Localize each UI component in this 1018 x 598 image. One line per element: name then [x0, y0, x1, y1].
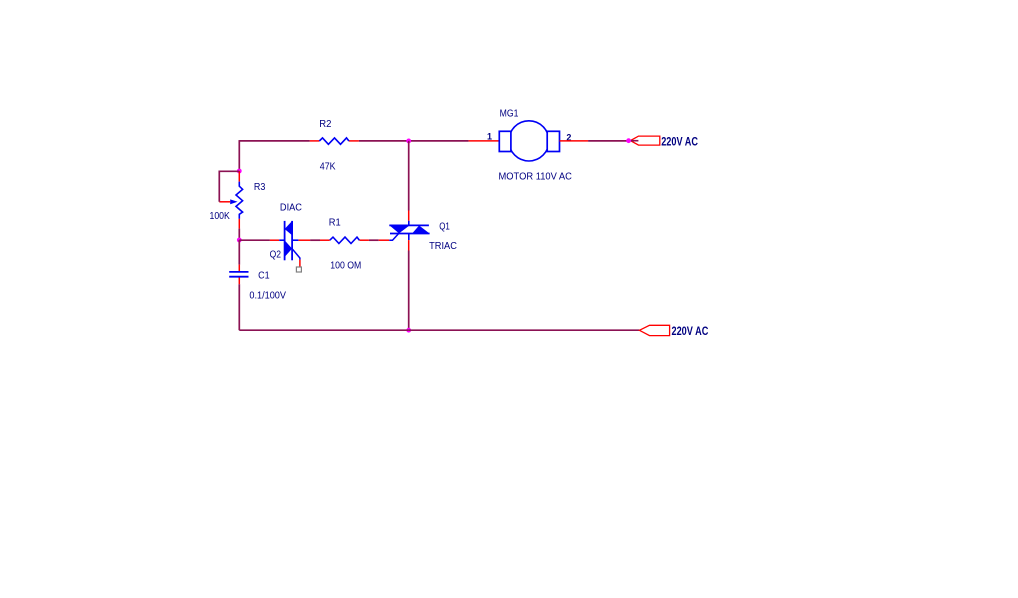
diac Q2 gate lead	[292, 249, 300, 260]
node junction R3 bottom	[237, 238, 242, 243]
wire C1 to bottom rail	[238, 284, 240, 330]
wire bottom rail left segment	[239, 329, 408, 331]
triac Q1 MT2 pin lead	[408, 211, 410, 221]
wire right column lower	[408, 251, 410, 331]
wire bottom rail right segment	[409, 329, 640, 331]
diac Q2 pin leads	[270, 239, 279, 241]
triac Q1 symbol	[408, 221, 410, 226]
wire right column upper	[408, 141, 410, 211]
svg-text:100K: 100K	[210, 211, 231, 222]
node junction R3 top	[237, 169, 242, 174]
svg-text:R3: R3	[254, 182, 266, 193]
triac Q1 gate	[389, 233, 399, 240]
diac Q2 symbol	[279, 239, 284, 241]
R3 wiper red lead	[219, 201, 230, 203]
node junction at top port	[626, 138, 631, 143]
triac Q1 MT1 pin lead	[408, 240, 410, 250]
wire top rail middle segment	[359, 140, 409, 142]
svg-text:TRIAC: TRIAC	[429, 241, 457, 252]
resistor R2 pin leads	[310, 140, 320, 142]
port 220V AC bottom terminal	[639, 325, 669, 335]
wire R3 to lower node	[238, 229, 240, 240]
resistor R2	[319, 138, 349, 144]
resistor R1 pin leads	[320, 239, 330, 241]
svg-text:R2: R2	[319, 119, 332, 130]
wire R3 wiper loop	[219, 171, 239, 202]
port 220V AC top terminal	[631, 136, 660, 145]
svg-text:Q1: Q1	[439, 222, 450, 233]
R3 wiper arrow	[230, 199, 237, 204]
wire top rail left segment	[239, 140, 309, 142]
svg-text:MG1: MG1	[500, 109, 519, 120]
triac Q1 gate pin lead	[379, 239, 390, 241]
svg-text:R1: R1	[329, 218, 341, 229]
potentiometer R3 pin leads	[238, 171, 240, 182]
svg-text:DIAC: DIAC	[280, 203, 302, 214]
motor MG1 pin 2 lead	[560, 140, 589, 142]
svg-text:220V AC: 220V AC	[672, 324, 709, 338]
wire node to C1	[238, 240, 240, 265]
port pin stub inside	[629, 140, 639, 142]
unconnected pin marker	[296, 267, 301, 272]
svg-text:220V AC: 220V AC	[661, 134, 698, 148]
svg-text:47K: 47K	[320, 162, 336, 173]
svg-text:0.1/100V: 0.1/100V	[249, 291, 286, 302]
node junction top of triac branch	[406, 139, 411, 144]
svg-text:C1: C1	[258, 271, 270, 282]
wire left column upper	[238, 140, 240, 171]
wire top rail to motor	[409, 140, 469, 142]
wire R1 to triac gate	[369, 239, 379, 241]
capacitor C1 pin leads	[238, 265, 240, 272]
motor MG1 body	[509, 121, 549, 161]
capacitor C1	[229, 271, 248, 273]
wire motor to top port	[588, 140, 629, 142]
resistor R1	[330, 237, 360, 243]
potentiometer R3 resistive element	[236, 182, 243, 219]
node junction bottom of triac branch	[406, 328, 411, 333]
wire diac to R1	[310, 239, 320, 241]
svg-text:100 OM: 100 OM	[330, 260, 361, 271]
svg-text:1: 1	[487, 132, 492, 142]
motor MG1 pin 1 lead	[469, 140, 500, 142]
wire lower node to diac	[239, 239, 270, 241]
svg-text:MOTOR 110V AC: MOTOR 110V AC	[499, 172, 572, 183]
svg-text:Q2: Q2	[270, 249, 282, 260]
